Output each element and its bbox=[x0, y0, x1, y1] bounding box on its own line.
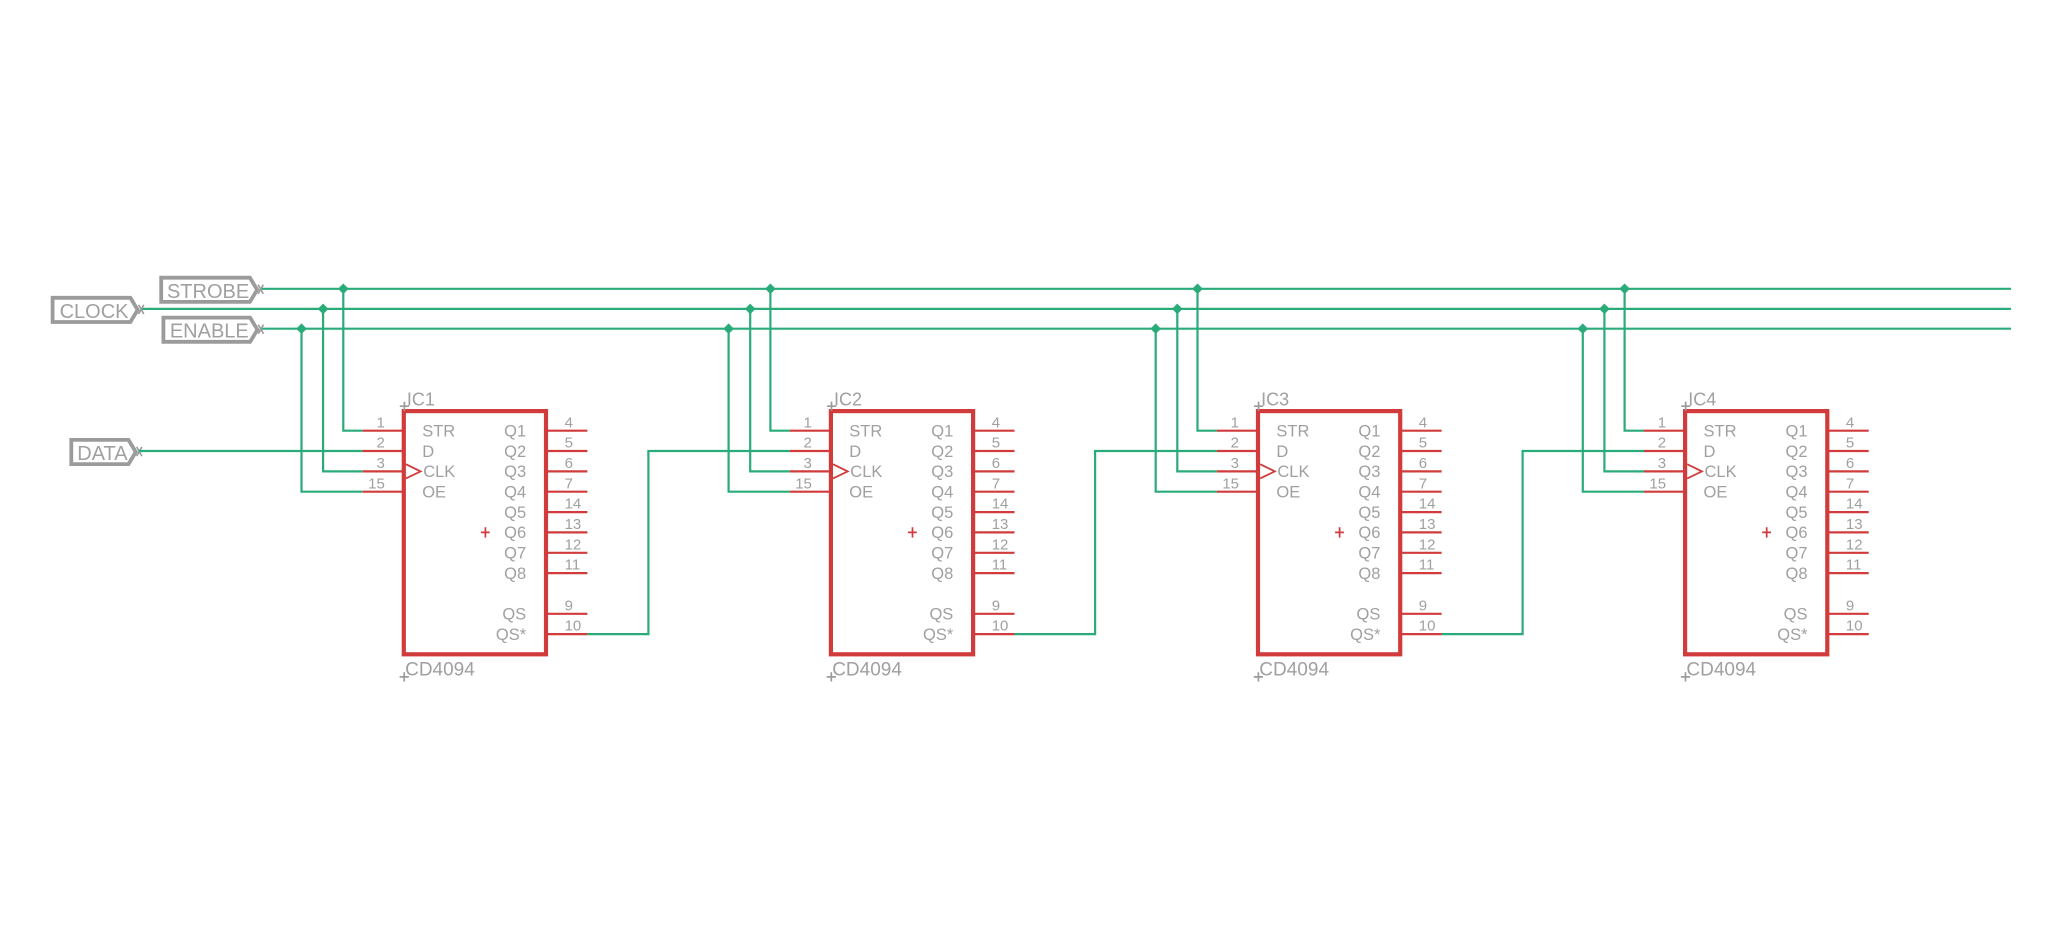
svg-text:Q1: Q1 bbox=[931, 423, 953, 441]
svg-text:7: 7 bbox=[1846, 475, 1854, 492]
svg-text:D: D bbox=[422, 443, 434, 461]
IC1 pin 15 (OE) bbox=[363, 475, 446, 501]
svg-text:Q3: Q3 bbox=[1358, 463, 1380, 481]
svg-text:QS: QS bbox=[1784, 606, 1808, 624]
svg-text:6: 6 bbox=[1846, 455, 1854, 472]
wire CLOCK drop to IC2 CLK bbox=[750, 309, 790, 472]
junction CLOCK bus / IC3 drop bbox=[1172, 304, 1183, 315]
svg-text:STR: STR bbox=[849, 423, 882, 441]
svg-text:15: 15 bbox=[1222, 475, 1239, 492]
junction STROBE bus / IC2 drop bbox=[765, 284, 776, 295]
svg-text:STR: STR bbox=[422, 423, 455, 441]
IC2 pin 1 (STR) bbox=[790, 414, 883, 440]
wire IC3 QS* to IC4 D bbox=[1442, 451, 1644, 634]
svg-text:13: 13 bbox=[1846, 516, 1863, 533]
svg-text:CD4094: CD4094 bbox=[832, 660, 902, 681]
svg-text:10: 10 bbox=[565, 618, 582, 635]
IC2 pin 14 (Q5) bbox=[931, 496, 1014, 522]
wire ENABLE drop to IC3 OE bbox=[1156, 329, 1217, 492]
IC4 value label CD4094 bbox=[1681, 660, 1757, 682]
svg-text:5: 5 bbox=[992, 435, 1000, 452]
wire STROBE drop to IC3 STR bbox=[1198, 289, 1217, 431]
svg-text:6: 6 bbox=[992, 455, 1000, 472]
IC2 pin 15 (OE) bbox=[790, 475, 873, 501]
IC4 pin 4 (Q1) bbox=[1785, 414, 1868, 440]
svg-text:QS: QS bbox=[502, 606, 526, 624]
IC1 pin 10 (QS*) bbox=[496, 618, 587, 644]
svg-text:Q2: Q2 bbox=[1785, 443, 1807, 461]
svg-text:12: 12 bbox=[1846, 536, 1863, 553]
svg-text:ENABLE: ENABLE bbox=[170, 321, 249, 343]
svg-text:OE: OE bbox=[1704, 484, 1728, 502]
svg-text:Q5: Q5 bbox=[1785, 504, 1807, 522]
svg-text:CD4094: CD4094 bbox=[405, 660, 475, 681]
net flag CLOCK bbox=[53, 298, 144, 323]
svg-text:STR: STR bbox=[1276, 423, 1309, 441]
IC4 pin 3 (CLK) bbox=[1644, 455, 1737, 481]
IC2 pin 2 (D) bbox=[790, 435, 862, 461]
wire CLOCK bus bbox=[141, 308, 2011, 310]
svg-text:14: 14 bbox=[1846, 496, 1863, 513]
IC3 pin 14 (Q5) bbox=[1358, 496, 1441, 522]
svg-text:7: 7 bbox=[992, 475, 1000, 492]
junction STROBE bus / IC1 drop bbox=[338, 284, 349, 295]
svg-text:6: 6 bbox=[1419, 455, 1427, 472]
IC3 pin 2 (D) bbox=[1217, 435, 1289, 461]
svg-text:3: 3 bbox=[1658, 455, 1666, 472]
junction ENABLE bus / IC2 drop bbox=[723, 323, 734, 334]
junction CLOCK bus / IC4 drop bbox=[1599, 304, 1610, 315]
svg-text:CLOCK: CLOCK bbox=[60, 301, 130, 323]
IC2 pin 9 (QS) bbox=[929, 597, 1014, 623]
svg-text:13: 13 bbox=[565, 516, 582, 533]
IC2 pin 3 (CLK) bbox=[790, 455, 883, 481]
IC2 name label bbox=[827, 390, 862, 411]
svg-text:IC3: IC3 bbox=[1261, 390, 1289, 410]
IC1 pin 3 (CLK) bbox=[363, 455, 456, 481]
svg-text:15: 15 bbox=[795, 475, 812, 492]
IC2 pin 11 (Q8) bbox=[931, 557, 1014, 583]
svg-text:13: 13 bbox=[1419, 516, 1436, 533]
IC2 pin 10 (QS*) bbox=[923, 618, 1014, 644]
IC2 pin 5 (Q2) bbox=[931, 435, 1014, 461]
svg-text:Q8: Q8 bbox=[931, 565, 953, 583]
junction STROBE bus / IC3 drop bbox=[1192, 284, 1203, 295]
IC1 pin 7 (Q4) bbox=[504, 475, 587, 501]
svg-text:D: D bbox=[1704, 443, 1716, 461]
IC3 value label CD4094 bbox=[1254, 660, 1330, 682]
svg-text:Q7: Q7 bbox=[1785, 545, 1807, 563]
svg-text:4: 4 bbox=[565, 414, 573, 431]
svg-text:D: D bbox=[849, 443, 861, 461]
svg-text:11: 11 bbox=[992, 557, 1008, 574]
junction ENABLE bus / IC1 drop bbox=[296, 323, 307, 334]
wire ENABLE drop to IC4 OE bbox=[1583, 329, 1644, 492]
svg-text:Q6: Q6 bbox=[1785, 524, 1807, 542]
svg-text:DATA: DATA bbox=[77, 443, 128, 465]
svg-text:Q8: Q8 bbox=[1358, 565, 1380, 583]
svg-text:Q8: Q8 bbox=[504, 565, 526, 583]
net flag DATA bbox=[71, 440, 142, 465]
IC2 pin 7 (Q4) bbox=[931, 475, 1014, 501]
IC4 pin 9 (QS) bbox=[1784, 597, 1869, 623]
svg-text:CLK: CLK bbox=[423, 463, 455, 481]
svg-text:10: 10 bbox=[992, 618, 1009, 635]
svg-text:Q2: Q2 bbox=[504, 443, 526, 461]
IC3 pin 4 (Q1) bbox=[1358, 414, 1441, 440]
IC4 pin 5 (Q2) bbox=[1785, 435, 1868, 461]
svg-text:Q2: Q2 bbox=[1358, 443, 1380, 461]
wire DATA to IC1 pin D bbox=[139, 450, 363, 452]
svg-text:1: 1 bbox=[376, 414, 384, 431]
svg-text:QS: QS bbox=[929, 606, 953, 624]
svg-text:OE: OE bbox=[422, 484, 446, 502]
junction ENABLE bus / IC3 drop bbox=[1150, 323, 1161, 334]
svg-text:2: 2 bbox=[376, 435, 384, 452]
IC2 pin 13 (Q6) bbox=[931, 516, 1014, 542]
IC3 pin 11 (Q8) bbox=[1358, 557, 1441, 583]
svg-text:11: 11 bbox=[1846, 557, 1862, 574]
IC1 pin 5 (Q2) bbox=[504, 435, 587, 461]
svg-text:3: 3 bbox=[1231, 455, 1239, 472]
svg-text:CLK: CLK bbox=[1705, 463, 1737, 481]
svg-text:QS*: QS* bbox=[496, 626, 527, 644]
wire CLOCK drop to IC1 CLK bbox=[323, 309, 363, 472]
svg-text:3: 3 bbox=[376, 455, 384, 472]
svg-text:Q5: Q5 bbox=[1358, 504, 1380, 522]
svg-text:Q1: Q1 bbox=[504, 423, 526, 441]
svg-text:5: 5 bbox=[1846, 435, 1854, 452]
svg-text:IC4: IC4 bbox=[1688, 390, 1716, 410]
IC3 name label bbox=[1254, 390, 1289, 411]
IC1 pin 4 (Q1) bbox=[504, 414, 587, 440]
IC4 pin 15 (OE) bbox=[1644, 475, 1727, 501]
svg-text:Q4: Q4 bbox=[504, 484, 526, 502]
IC IC2 CD4094 bbox=[831, 411, 973, 654]
svg-text:5: 5 bbox=[1419, 435, 1427, 452]
svg-text:1: 1 bbox=[804, 414, 812, 431]
svg-text:Q4: Q4 bbox=[1785, 484, 1807, 502]
wire STROBE bus bbox=[261, 288, 2011, 290]
svg-text:Q3: Q3 bbox=[931, 463, 953, 481]
IC3 pin 3 (CLK) bbox=[1217, 455, 1310, 481]
IC4 pin 13 (Q6) bbox=[1785, 516, 1868, 542]
svg-text:CLK: CLK bbox=[850, 463, 882, 481]
svg-text:4: 4 bbox=[1846, 414, 1854, 431]
svg-text:14: 14 bbox=[1419, 496, 1436, 513]
svg-text:Q7: Q7 bbox=[504, 545, 526, 563]
svg-text:Q4: Q4 bbox=[1358, 484, 1380, 502]
IC4 pin 12 (Q7) bbox=[1785, 536, 1868, 562]
svg-text:2: 2 bbox=[1231, 435, 1239, 452]
svg-text:14: 14 bbox=[565, 496, 582, 513]
svg-text:Q1: Q1 bbox=[1785, 423, 1807, 441]
IC1 value label CD4094 bbox=[400, 660, 476, 682]
junction CLOCK bus / IC1 drop bbox=[318, 304, 329, 315]
svg-text:12: 12 bbox=[992, 536, 1009, 553]
wire STROBE drop to IC2 STR bbox=[770, 289, 789, 431]
IC3 pin 10 (QS*) bbox=[1350, 618, 1441, 644]
IC3 pin 9 (QS) bbox=[1357, 597, 1442, 623]
svg-text:12: 12 bbox=[565, 536, 582, 553]
wire CLOCK drop to IC4 CLK bbox=[1604, 309, 1644, 472]
svg-text:Q7: Q7 bbox=[931, 545, 953, 563]
svg-text:STROBE: STROBE bbox=[167, 281, 249, 303]
IC3 pin 12 (Q7) bbox=[1358, 536, 1441, 562]
IC4 pin 7 (Q4) bbox=[1785, 475, 1868, 501]
svg-text:15: 15 bbox=[1649, 475, 1666, 492]
svg-text:CD4094: CD4094 bbox=[1686, 660, 1756, 681]
svg-text:4: 4 bbox=[992, 414, 1000, 431]
svg-text:QS*: QS* bbox=[1350, 626, 1381, 644]
IC4 name label bbox=[1681, 390, 1716, 411]
wire ENABLE bus bbox=[261, 328, 2011, 330]
junction ENABLE bus / IC4 drop bbox=[1578, 323, 1589, 334]
IC1 pin 11 (Q8) bbox=[504, 557, 587, 583]
IC1 pin 9 (QS) bbox=[502, 597, 587, 623]
IC2 pin 12 (Q7) bbox=[931, 536, 1014, 562]
svg-text:1: 1 bbox=[1231, 414, 1239, 431]
IC1 pin 6 (Q3) bbox=[504, 455, 587, 481]
IC4 pin 2 (D) bbox=[1644, 435, 1716, 461]
IC3 pin 6 (Q3) bbox=[1358, 455, 1441, 481]
svg-text:D: D bbox=[1276, 443, 1288, 461]
net flag ENABLE bbox=[163, 318, 263, 343]
svg-text:6: 6 bbox=[565, 455, 573, 472]
svg-text:12: 12 bbox=[1419, 536, 1436, 553]
svg-text:Q3: Q3 bbox=[504, 463, 526, 481]
svg-text:CD4094: CD4094 bbox=[1259, 660, 1329, 681]
wire CLOCK drop to IC3 CLK bbox=[1177, 309, 1217, 472]
IC2 value label CD4094 bbox=[827, 660, 903, 682]
IC4 pin 6 (Q3) bbox=[1785, 455, 1868, 481]
junction STROBE bus / IC4 drop bbox=[1619, 284, 1630, 295]
svg-text:11: 11 bbox=[1419, 557, 1435, 574]
svg-text:11: 11 bbox=[565, 557, 581, 574]
IC2 pin 4 (Q1) bbox=[931, 414, 1014, 440]
svg-text:4: 4 bbox=[1419, 414, 1427, 431]
svg-text:Q5: Q5 bbox=[504, 504, 526, 522]
svg-text:3: 3 bbox=[804, 455, 812, 472]
junction CLOCK bus / IC2 drop bbox=[745, 304, 756, 315]
svg-text:13: 13 bbox=[992, 516, 1009, 533]
svg-text:Q2: Q2 bbox=[931, 443, 953, 461]
IC4 pin 1 (STR) bbox=[1644, 414, 1737, 440]
IC3 pin 13 (Q6) bbox=[1358, 516, 1441, 542]
IC IC1 CD4094 bbox=[404, 411, 546, 654]
IC3 pin 1 (STR) bbox=[1217, 414, 1310, 440]
wire IC2 QS* to IC3 D bbox=[1015, 451, 1217, 634]
svg-text:5: 5 bbox=[565, 435, 573, 452]
svg-text:Q6: Q6 bbox=[931, 524, 953, 542]
svg-text:OE: OE bbox=[1276, 484, 1300, 502]
svg-text:IC1: IC1 bbox=[407, 390, 435, 410]
IC IC3 CD4094 bbox=[1258, 411, 1400, 654]
wire ENABLE drop to IC2 OE bbox=[729, 329, 790, 492]
svg-text:14: 14 bbox=[992, 496, 1009, 513]
IC1 pin 14 (Q5) bbox=[504, 496, 587, 522]
IC4 pin 10 (QS*) bbox=[1777, 618, 1868, 644]
svg-text:Q8: Q8 bbox=[1785, 565, 1807, 583]
IC IC4 CD4094 bbox=[1685, 411, 1827, 654]
IC1 pin 13 (Q6) bbox=[504, 516, 587, 542]
svg-text:IC2: IC2 bbox=[834, 390, 862, 410]
svg-text:QS*: QS* bbox=[1777, 626, 1808, 644]
svg-text:9: 9 bbox=[1419, 597, 1427, 614]
IC4 pin 11 (Q8) bbox=[1785, 557, 1868, 583]
IC3 pin 7 (Q4) bbox=[1358, 475, 1441, 501]
svg-text:10: 10 bbox=[1846, 618, 1863, 635]
wire ENABLE drop to IC1 OE bbox=[302, 329, 363, 492]
wire STROBE drop to IC1 STR bbox=[343, 289, 362, 431]
svg-text:7: 7 bbox=[1419, 475, 1427, 492]
svg-text:Q7: Q7 bbox=[1358, 545, 1380, 563]
wire STROBE drop to IC4 STR bbox=[1625, 289, 1644, 431]
svg-text:9: 9 bbox=[1846, 597, 1854, 614]
IC1 pin 12 (Q7) bbox=[504, 536, 587, 562]
svg-text:7: 7 bbox=[565, 475, 573, 492]
svg-text:CLK: CLK bbox=[1277, 463, 1309, 481]
svg-text:STR: STR bbox=[1704, 423, 1737, 441]
svg-text:10: 10 bbox=[1419, 618, 1436, 635]
svg-text:QS*: QS* bbox=[923, 626, 954, 644]
IC3 pin 5 (Q2) bbox=[1358, 435, 1441, 461]
svg-text:Q4: Q4 bbox=[931, 484, 953, 502]
svg-text:2: 2 bbox=[804, 435, 812, 452]
IC2 pin 6 (Q3) bbox=[931, 455, 1014, 481]
svg-text:9: 9 bbox=[565, 597, 573, 614]
svg-text:15: 15 bbox=[368, 475, 385, 492]
svg-text:OE: OE bbox=[849, 484, 873, 502]
svg-text:Q3: Q3 bbox=[1785, 463, 1807, 481]
IC3 pin 15 (OE) bbox=[1217, 475, 1300, 501]
IC1 name label bbox=[400, 390, 435, 411]
svg-text:Q1: Q1 bbox=[1358, 423, 1380, 441]
wire IC1 QS* to IC2 D bbox=[587, 451, 789, 634]
IC1 pin 1 (STR) bbox=[363, 414, 456, 440]
svg-text:2: 2 bbox=[1658, 435, 1666, 452]
svg-text:Q6: Q6 bbox=[1358, 524, 1380, 542]
svg-text:Q5: Q5 bbox=[931, 504, 953, 522]
IC4 pin 14 (Q5) bbox=[1785, 496, 1868, 522]
net flag STROBE bbox=[161, 278, 263, 303]
svg-text:QS: QS bbox=[1357, 606, 1381, 624]
IC1 pin 2 (D) bbox=[363, 435, 435, 461]
svg-text:Q6: Q6 bbox=[504, 524, 526, 542]
svg-text:9: 9 bbox=[992, 597, 1000, 614]
svg-text:1: 1 bbox=[1658, 414, 1666, 431]
